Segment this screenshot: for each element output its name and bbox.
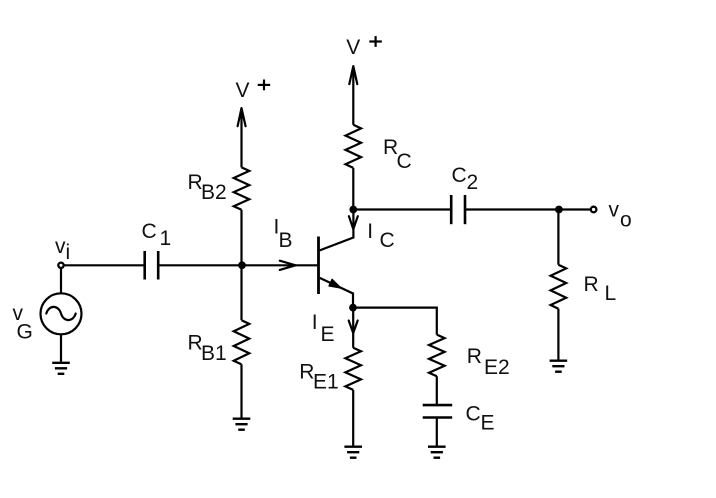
- ground (RE1): [344, 447, 362, 458]
- label RC: [383, 136, 412, 173]
- wire node B down to RB1: [240, 265, 242, 320]
- resistor RB1: [234, 320, 250, 364]
- svg-text:E: E: [321, 323, 335, 346]
- wire vi to C1: [64, 264, 145, 266]
- arrow IE: [349, 321, 358, 334]
- wire RE2 to CE: [436, 376, 438, 405]
- resistor RL: [551, 265, 567, 309]
- label C2: [452, 164, 479, 194]
- wire node C to C2: [353, 208, 451, 210]
- svg-text:B1: B1: [201, 342, 227, 365]
- node E (emitter node): [349, 304, 357, 312]
- svg-text:C: C: [452, 164, 467, 187]
- svg-text:1: 1: [160, 227, 172, 250]
- wire C2 to node D: [465, 208, 591, 210]
- svg-text:I: I: [312, 311, 318, 334]
- label vo: [609, 199, 632, 232]
- capacitor C2: [451, 195, 465, 224]
- label RB2: [188, 171, 227, 204]
- label IE: [312, 311, 335, 346]
- wire RL to ground: [557, 309, 559, 361]
- svg-text:L: L: [605, 282, 617, 305]
- wire node E to RE2 branch: [353, 308, 437, 335]
- svg-text:B: B: [279, 229, 293, 252]
- node D (output node): [555, 206, 563, 214]
- label vG: [13, 302, 33, 344]
- ground (RL): [550, 361, 568, 372]
- svg-text:B2: B2: [201, 181, 227, 204]
- transistor Q1 collector lead: [320, 210, 354, 251]
- node B (base node): [238, 261, 246, 269]
- svg-text:o: o: [620, 209, 632, 232]
- svg-text:v: v: [55, 235, 66, 258]
- svg-text:V: V: [236, 79, 250, 102]
- svg-text:E2: E2: [484, 356, 510, 379]
- svg-text:v: v: [609, 199, 620, 222]
- svg-text:I: I: [367, 220, 373, 243]
- svg-text:C: C: [380, 229, 395, 252]
- arrow IC: [349, 216, 358, 229]
- node C (collector node): [349, 206, 357, 214]
- label C1: [142, 220, 172, 250]
- svg-text:C: C: [466, 402, 481, 425]
- svg-text:E: E: [481, 411, 495, 434]
- ground (source): [52, 363, 70, 374]
- wire node B up to RB2: [240, 210, 242, 265]
- label RL: [584, 273, 617, 305]
- wire RB2 to V+ arrow: [240, 108, 242, 167]
- arrow V+ (left supply): [238, 108, 246, 126]
- wire RB1 to ground: [240, 364, 242, 418]
- svg-text:E1: E1: [313, 370, 339, 393]
- resistor RE1: [345, 348, 361, 390]
- svg-text:R: R: [467, 345, 482, 368]
- node vi (input terminal): [58, 263, 63, 268]
- svg-text:V: V: [346, 36, 360, 59]
- wire RE1 to ground: [352, 390, 354, 447]
- ground (CE): [428, 447, 446, 458]
- label CE: [466, 402, 495, 434]
- label V+ (left supply): [236, 79, 250, 102]
- wire RC to V+ arrow: [352, 66, 354, 125]
- source vG (sine generator): [41, 293, 82, 334]
- svg-text:C: C: [397, 150, 412, 173]
- resistor RB2: [234, 167, 250, 209]
- transistor Q1 emitter lead: [320, 278, 353, 308]
- label RE2: [467, 345, 510, 379]
- capacitor CE: [423, 405, 453, 417]
- arrow V+ (right supply): [349, 66, 357, 84]
- arrow IB: [280, 261, 296, 270]
- wire C1 to base: [158, 264, 317, 266]
- wire node D to RL: [557, 210, 559, 265]
- plus sign (left supply): [258, 80, 271, 91]
- wire vG to ground: [60, 334, 62, 363]
- label RB1: [188, 332, 227, 366]
- label V+ (right supply): [346, 36, 360, 59]
- svg-text:R: R: [584, 273, 599, 296]
- resistor RC: [346, 125, 362, 168]
- svg-text:2: 2: [467, 171, 479, 194]
- wire vi to source vG: [60, 268, 62, 293]
- transistor Q1 emitter arrow: [329, 279, 341, 288]
- label RE1: [299, 360, 338, 393]
- plus sign (right supply): [369, 36, 382, 47]
- capacitor C1: [145, 251, 159, 280]
- wire RC to node C: [352, 168, 354, 210]
- wire node E to RE1: [352, 308, 354, 348]
- svg-text:i: i: [66, 241, 71, 264]
- resistor RE2: [429, 335, 445, 377]
- svg-text:C: C: [142, 220, 157, 243]
- label IC: [367, 220, 394, 252]
- label vi: [55, 235, 70, 264]
- transistor Q1 base bar: [317, 237, 320, 295]
- label IB: [274, 215, 293, 252]
- wire CE to ground: [436, 418, 438, 447]
- ground (RB1): [233, 419, 251, 430]
- terminal vo (open circle): [591, 207, 597, 213]
- svg-text:G: G: [17, 321, 33, 344]
